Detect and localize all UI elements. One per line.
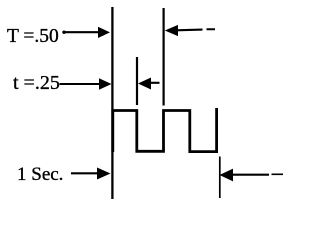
waveform square wave [113, 108, 217, 152]
svg-text:1 Sec.: 1 Sec. [17, 164, 63, 185]
arrow 1-sec left-pointing [220, 169, 284, 182]
dimension line 1-sec-end [219, 157, 221, 199]
dimension line pulse-width-end [136, 57, 138, 105]
dimension line period-end [163, 8, 165, 106]
arrow T=.50 right-pointing [62, 27, 110, 38]
arrow pulse-width left-pointing [138, 78, 160, 90]
svg-text:T =.50: T =.50 [7, 26, 59, 47]
dimension line left period-start [111, 7, 113, 199]
arrow t=.25 right-pointing [60, 78, 112, 89]
arrow 1 Sec. right-pointing [71, 168, 111, 180]
svg-text:t =.25: t =.25 [13, 72, 60, 94]
arrow period left-pointing [165, 25, 215, 36]
